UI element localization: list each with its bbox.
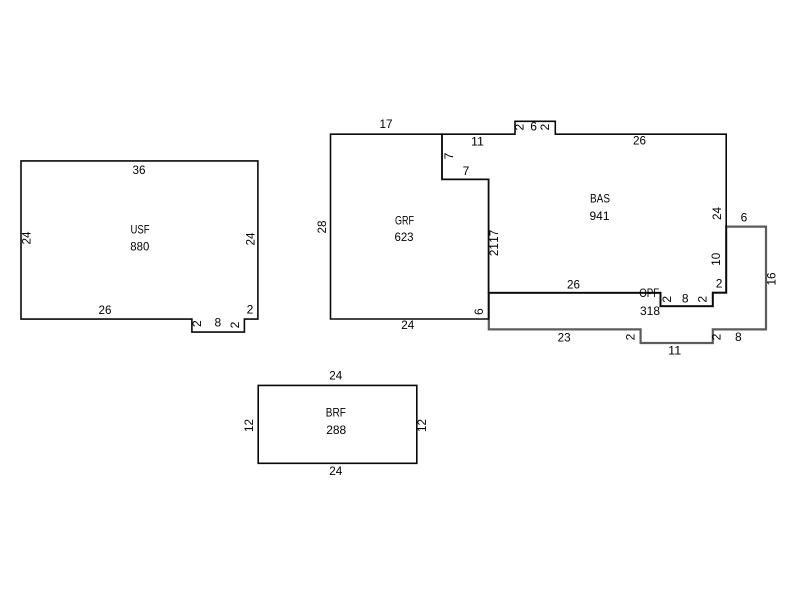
svg-text:7: 7	[463, 164, 470, 178]
svg-text:318: 318	[640, 304, 660, 318]
svg-text:11: 11	[471, 135, 484, 149]
svg-text:2: 2	[247, 303, 254, 317]
USF area outline	[21, 161, 258, 332]
svg-text:12: 12	[242, 419, 256, 432]
svg-text:26: 26	[99, 303, 112, 317]
svg-text:26: 26	[567, 278, 580, 292]
svg-text:2: 2	[538, 123, 552, 130]
svg-text:10: 10	[709, 252, 723, 265]
svg-text:24: 24	[20, 231, 34, 244]
svg-text:11: 11	[668, 343, 681, 357]
svg-text:24: 24	[710, 207, 724, 220]
svg-text:623: 623	[395, 230, 414, 244]
GRF area outline	[331, 134, 489, 319]
svg-text:16: 16	[765, 272, 779, 285]
svg-text:24: 24	[401, 318, 414, 332]
BAS area outline	[442, 121, 726, 306]
svg-text:21: 21	[487, 243, 501, 256]
svg-text:2: 2	[710, 333, 724, 340]
svg-text:880: 880	[130, 240, 149, 254]
svg-text:2: 2	[190, 320, 204, 327]
svg-text:24: 24	[329, 369, 342, 383]
svg-text:8: 8	[215, 316, 222, 330]
svg-text:36: 36	[133, 163, 146, 177]
svg-text:8: 8	[682, 292, 689, 306]
svg-text:2: 2	[716, 277, 723, 291]
svg-text:26: 26	[633, 134, 646, 148]
svg-text:6: 6	[530, 120, 537, 134]
svg-text:BAS: BAS	[590, 192, 610, 206]
svg-text:28: 28	[315, 220, 329, 233]
svg-text:6: 6	[741, 211, 748, 225]
svg-text:GRF: GRF	[395, 214, 414, 228]
svg-text:17: 17	[487, 229, 501, 242]
svg-text:288: 288	[326, 423, 346, 437]
svg-text:2: 2	[695, 296, 709, 303]
svg-text:2: 2	[513, 123, 527, 130]
svg-text:7: 7	[442, 152, 456, 159]
BRF area outline	[258, 385, 417, 463]
svg-text:2: 2	[228, 321, 242, 328]
svg-text:2: 2	[660, 296, 674, 303]
svg-text:12: 12	[415, 419, 429, 432]
svg-text:BRF: BRF	[326, 406, 346, 420]
svg-text:8: 8	[735, 330, 742, 344]
svg-text:USF: USF	[131, 223, 150, 237]
svg-text:OPF: OPF	[639, 286, 659, 300]
svg-text:24: 24	[329, 464, 342, 478]
svg-text:23: 23	[558, 330, 571, 344]
OPF area outline	[489, 227, 766, 343]
svg-text:941: 941	[590, 209, 610, 223]
svg-text:17: 17	[380, 117, 393, 131]
svg-text:6: 6	[472, 308, 486, 315]
svg-text:2: 2	[624, 333, 638, 340]
svg-text:24: 24	[244, 232, 258, 245]
